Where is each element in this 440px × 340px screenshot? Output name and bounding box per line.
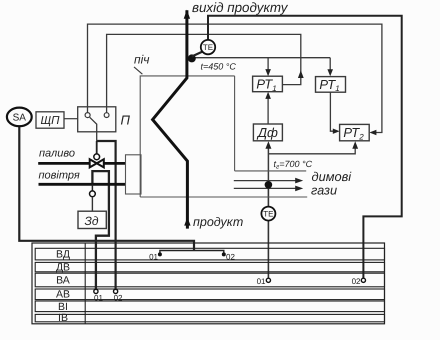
arrowhead into RT2 right side — [369, 130, 376, 136]
svg-text:повітря: повітря — [39, 170, 80, 182]
svg-text:01: 01 — [149, 252, 158, 261]
wire: branch into RT1a top — [267, 58, 269, 74]
svg-text:вихід продукту: вихід продукту — [192, 0, 289, 15]
svg-text:ДВ: ДВ — [56, 262, 70, 274]
switch blade — [90, 117, 97, 141]
svg-text:02: 02 — [226, 252, 235, 261]
svg-text:димові: димові — [312, 169, 353, 184]
leader line pich — [134, 67, 142, 74]
svg-text:піч: піч — [134, 52, 149, 66]
svg-text:Зд: Зд — [85, 214, 99, 228]
svg-text:t=450 °С: t=450 °С — [201, 62, 237, 72]
box ShchP — [36, 112, 64, 128]
terminal VD-01 — [158, 252, 162, 256]
TE1 sensor circle — [201, 40, 215, 54]
row AV — [35, 289, 384, 300]
pipe: air line — [39, 183, 127, 186]
svg-text:продукт: продукт — [193, 215, 243, 229]
TE2 sensor circle — [261, 207, 275, 221]
wire: SA down and across to VD row feed — [19, 127, 194, 251]
svg-text:02: 02 — [114, 294, 123, 303]
svg-text:паливо: паливо — [39, 148, 75, 160]
furnace bottom and flue duct bottom — [140, 196, 307, 198]
row IV — [35, 314, 384, 321]
valve V1 bowtie — [90, 159, 104, 167]
box Df — [253, 124, 282, 141]
svg-text:ЩП: ЩП — [41, 115, 61, 127]
flue arrow 2 — [234, 187, 296, 189]
label column divider — [84, 243, 86, 324]
svg-text:01: 01 — [257, 277, 266, 286]
node t450: product temperature tap wire — [194, 57, 331, 59]
product tap node — [188, 54, 196, 62]
svg-text:РТ2: РТ2 — [343, 125, 364, 141]
svg-text:Дф: Дф — [256, 125, 278, 140]
row DV — [35, 262, 384, 271]
wire: valve stem from junction — [96, 141, 98, 154]
wire A: contact K1 to RT2 right input — [88, 24, 382, 132]
wire: TE2 down to table BA-01 — [267, 220, 269, 278]
svg-text:П: П — [121, 113, 131, 128]
terminal VD-02 — [222, 252, 226, 256]
svg-text:ТЕ: ТЕ — [263, 210, 273, 219]
flue tap node — [265, 181, 273, 189]
damper actuator stub — [91, 184, 93, 191]
svg-text:ВД: ВД — [56, 248, 70, 260]
box Zd setpoint — [78, 211, 106, 228]
product output arrowhead — [184, 10, 190, 19]
pipe: fuel line — [38, 162, 126, 165]
svg-text:tг=700 °С: tг=700 °С — [274, 159, 313, 171]
terminal VA-02 — [361, 278, 365, 282]
wire ShchP to P — [64, 118, 78, 120]
VD row connector — [160, 251, 224, 255]
product inlet arrowhead — [184, 217, 190, 225]
wire B: contact K2 to RT1a output — [107, 34, 301, 112]
terminal AV-01 — [94, 289, 98, 293]
product line with zigzag coil — [153, 10, 188, 228]
wire: RT1b output to RT2 left input — [330, 92, 333, 131]
wire: P starter to fuel valve and down to table AV-02 — [97, 141, 116, 289]
wire: flue tap up into Df bottom — [267, 148, 269, 185]
wire: air damper loop down to table AV-01 — [92, 171, 109, 289]
terminal table outer box — [32, 243, 385, 324]
arrowhead up on wire B — [298, 70, 304, 78]
svg-text:РТ1: РТ1 — [319, 77, 339, 93]
svg-text:02: 02 — [352, 277, 361, 286]
wire: branch to RT2 bottom — [268, 148, 355, 154]
svg-text:ТЕ: ТЕ — [203, 43, 213, 52]
burner box — [126, 155, 142, 194]
valve V1 actuator circle — [94, 154, 100, 160]
svg-text:АВ: АВ — [56, 289, 70, 301]
svg-text:01: 01 — [94, 294, 103, 303]
terminal AV-02 — [114, 289, 118, 293]
terminal VA-01 — [266, 278, 270, 282]
contact K1 — [85, 113, 90, 118]
svg-text:SA: SA — [13, 113, 27, 124]
furnace box — [140, 76, 234, 197]
wire: branch into RT1b top — [329, 58, 331, 74]
wire: actuator to Zd — [91, 197, 93, 211]
svg-text:ВІ: ВІ — [58, 301, 68, 313]
wire tap to TE1 — [192, 51, 203, 56]
svg-text:ІВ: ІВ — [58, 312, 68, 324]
damper actuator circle — [90, 191, 96, 197]
box RT2 — [340, 124, 370, 140]
flue arrow 1 — [234, 180, 296, 182]
contact K2 — [104, 113, 109, 118]
box RT1a — [253, 76, 283, 92]
SA selector circle — [7, 108, 32, 127]
box RT1b — [316, 77, 346, 93]
box P starter — [78, 107, 116, 132]
row VD — [35, 248, 384, 260]
wire: flue tap down to TE2 — [267, 186, 269, 207]
svg-text:ВА: ВА — [56, 275, 70, 287]
svg-text:РТ1: РТ1 — [256, 77, 276, 93]
svg-text:гази: гази — [311, 183, 337, 198]
row VI — [35, 301, 384, 312]
wire: TE1 to right bus down to table BA-02 — [208, 16, 402, 278]
wire: Df output to RT1a bottom — [267, 98, 269, 124]
flue duct top — [235, 170, 307, 172]
row VA — [35, 273, 384, 287]
